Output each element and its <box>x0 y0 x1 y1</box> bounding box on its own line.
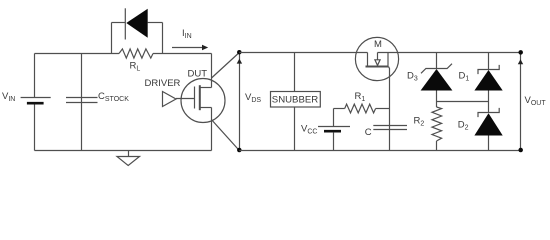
wire diode branch right stub <box>162 23 164 54</box>
wire top to DUT drain corner <box>153 53 212 55</box>
battery V_CC <box>318 109 350 151</box>
zener D1 <box>474 53 502 113</box>
capacitor C_STOCK <box>66 54 98 151</box>
node bottom-right junction <box>518 148 523 153</box>
svg-text:R1: R1 <box>355 91 366 103</box>
current arrow I_IN <box>172 45 208 50</box>
svg-text:M: M <box>374 39 382 50</box>
wire bottom-left loop <box>35 150 212 152</box>
svg-text:VDS: VDS <box>245 92 261 104</box>
V_DS measurement line <box>237 53 242 151</box>
svg-text:IIN: IIN <box>182 28 192 40</box>
capacitor C <box>373 126 407 130</box>
wire diode branch left stub <box>111 23 113 54</box>
snubber block <box>271 53 321 151</box>
node top-left junction <box>237 50 242 55</box>
wire bottom rail <box>239 150 520 152</box>
svg-text:VIN: VIN <box>2 91 15 103</box>
transistor DUT <box>176 79 225 123</box>
wire DUT source vertical <box>211 108 213 151</box>
wire V_IN left vertical top <box>34 54 36 98</box>
wire top-left loop <box>35 53 120 55</box>
svg-text:VCC: VCC <box>301 124 317 136</box>
svg-text:CSTOCK: CSTOCK <box>98 91 129 103</box>
wire V_IN left vertical bottom <box>34 104 36 151</box>
ground <box>117 151 140 166</box>
svg-text:R2: R2 <box>414 116 425 128</box>
wire top rail right of M <box>378 52 521 54</box>
resistor R_L <box>119 49 153 58</box>
svg-text:D1: D1 <box>459 70 470 82</box>
node bottom-left junction <box>237 148 242 153</box>
wire M gate line down <box>389 67 390 151</box>
wire diagonal source to bottom node <box>212 120 240 151</box>
battery V_IN <box>21 98 51 104</box>
resistor R2 <box>432 107 442 151</box>
wire top rail left of M <box>239 52 367 54</box>
driver buffer <box>163 92 177 107</box>
wire middle link <box>437 101 489 103</box>
svg-text:RL: RL <box>130 61 141 73</box>
transistor M <box>355 37 398 80</box>
zener D2 <box>474 108 502 151</box>
wire diagonal drain to top node <box>212 53 240 79</box>
node top-right junction <box>518 50 523 55</box>
resistor R1 <box>334 104 390 113</box>
svg-text:D2: D2 <box>458 120 469 132</box>
zener D3 <box>421 53 453 108</box>
wire diode branch top <box>112 22 126 24</box>
svg-text:DUT: DUT <box>188 69 208 80</box>
V_OUT measurement line <box>518 53 523 151</box>
svg-text:DRIVER: DRIVER <box>145 78 181 89</box>
svg-text:VOUT: VOUT <box>525 95 547 107</box>
wire DUT drain vertical <box>211 54 213 88</box>
svg-text:D3: D3 <box>407 71 418 83</box>
diode (freewheel, cathode bar left) <box>125 8 147 39</box>
svg-text:SNUBBER: SNUBBER <box>272 94 318 105</box>
svg-text:C: C <box>365 127 372 138</box>
